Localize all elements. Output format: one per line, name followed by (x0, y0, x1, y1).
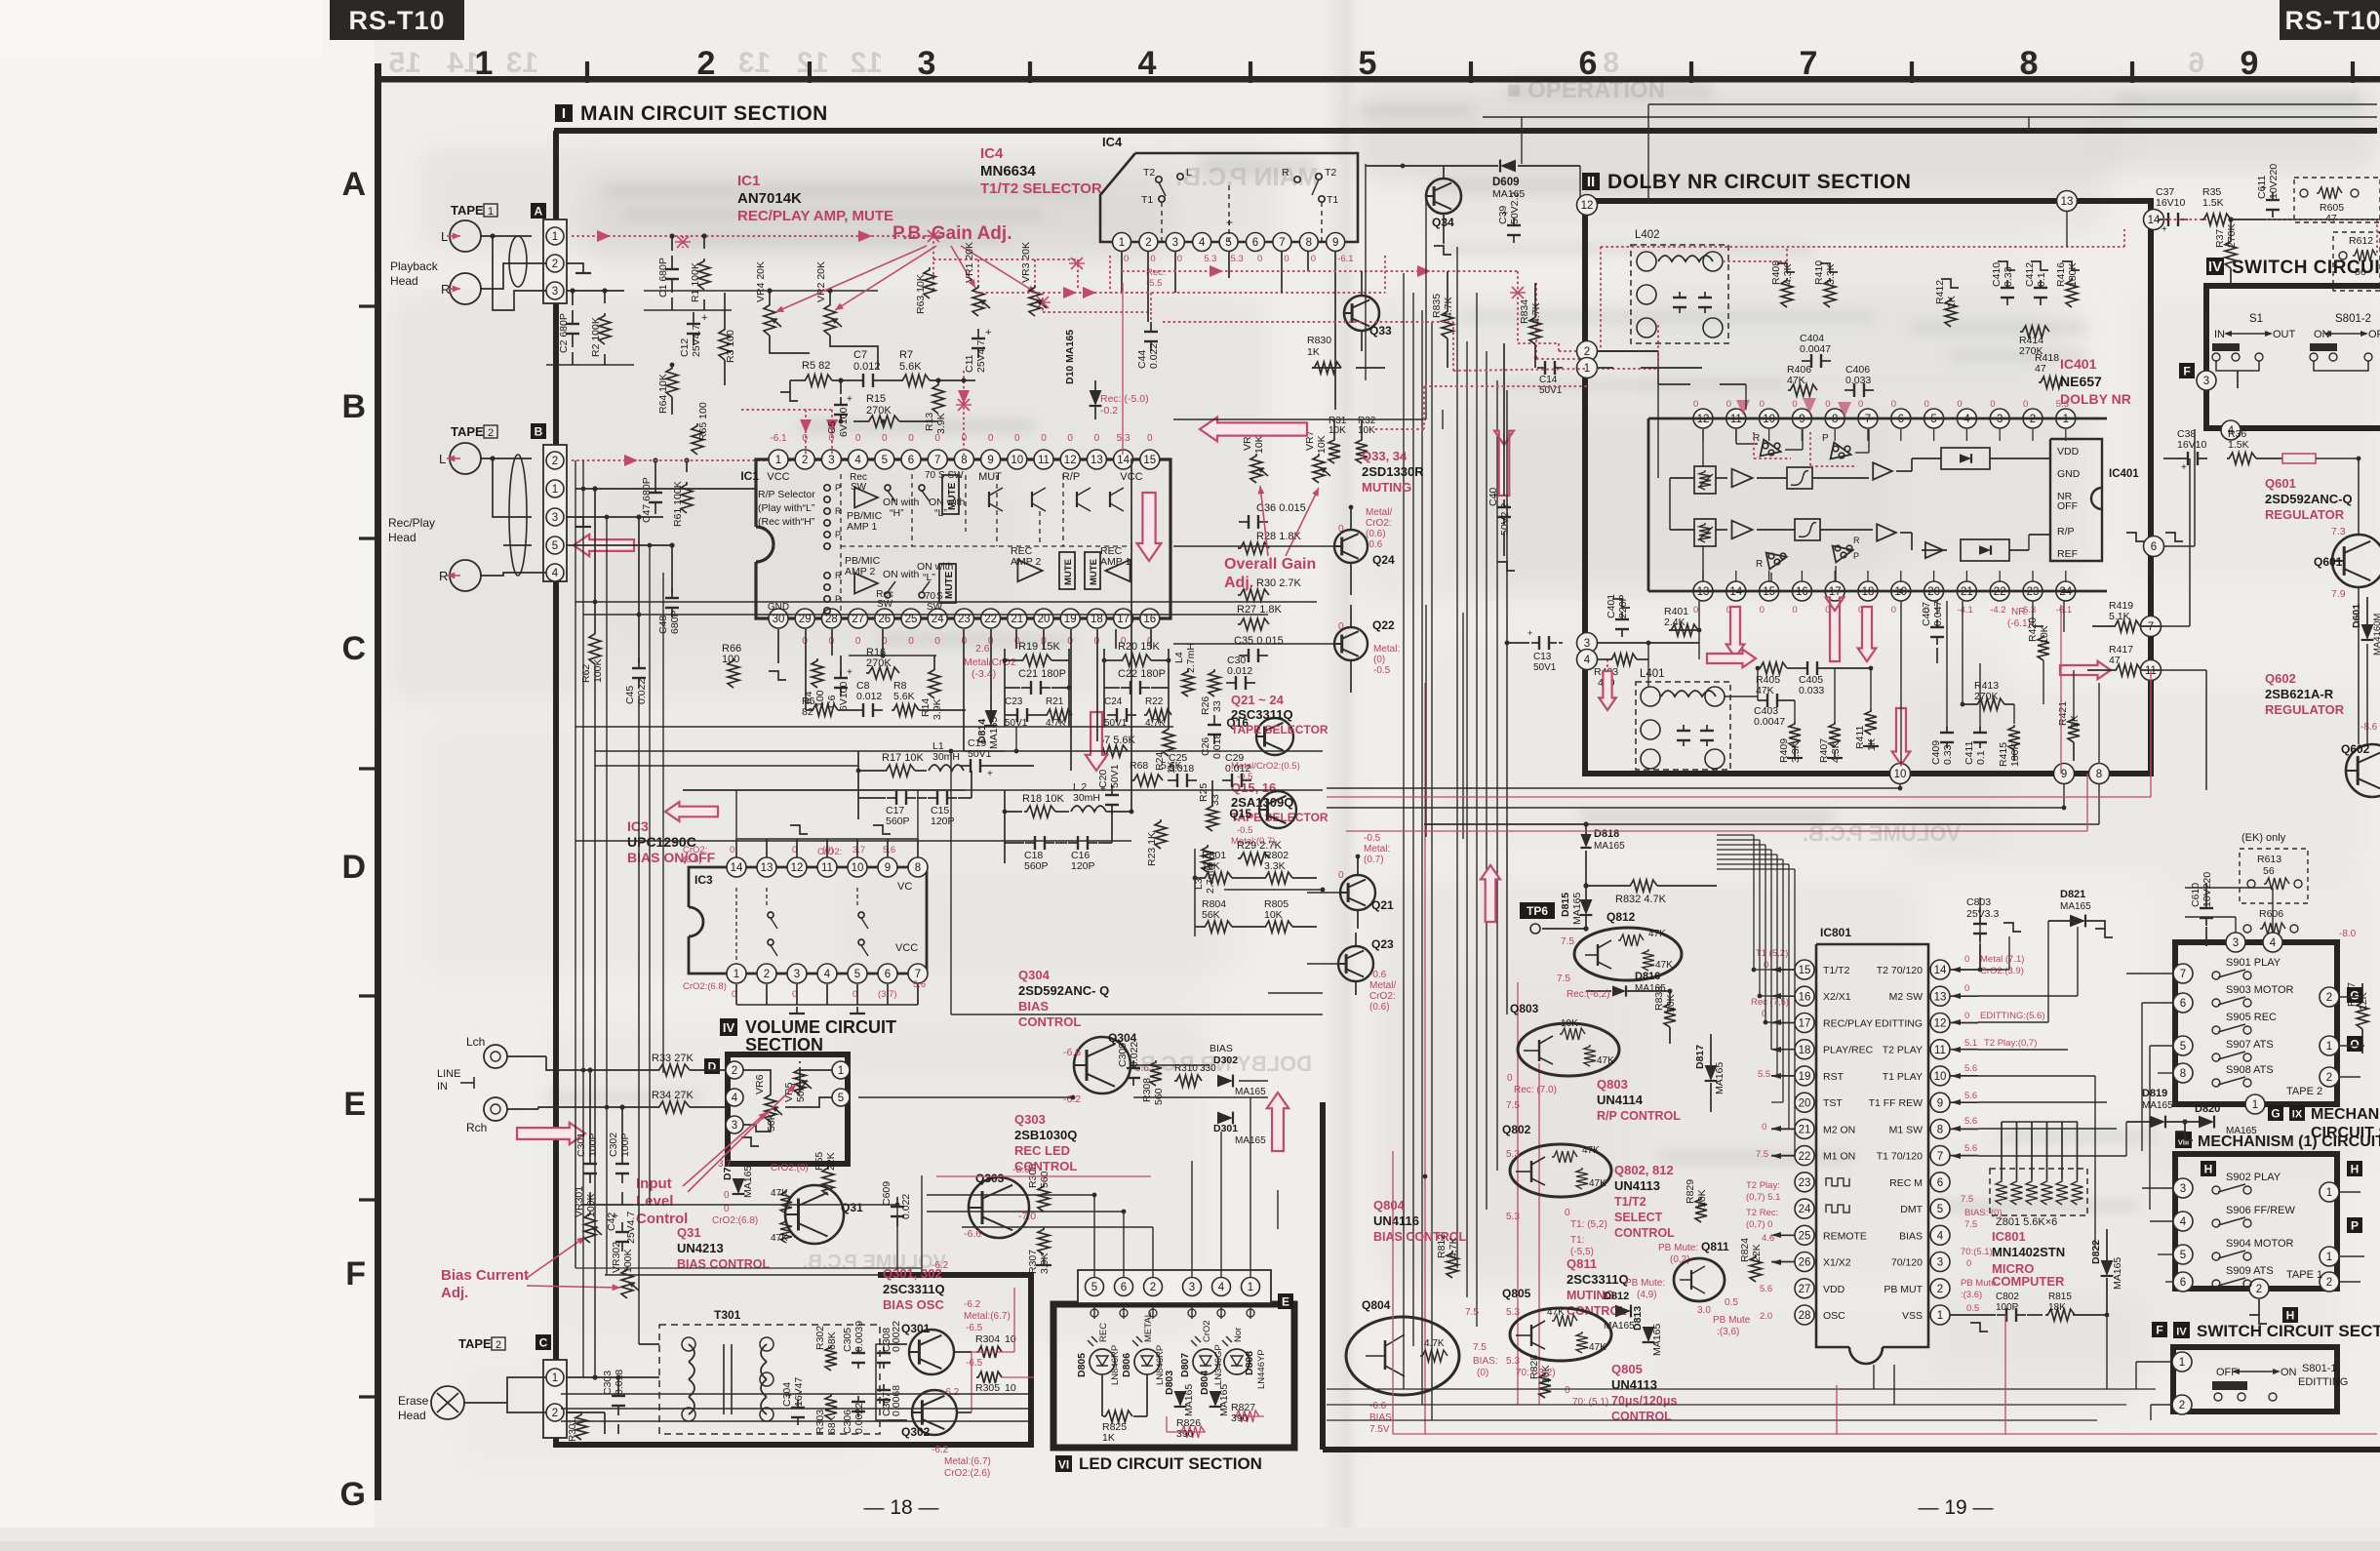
svg-text:0: 0 (1760, 605, 1765, 616)
svg-text:MN6634: MN6634 (980, 163, 1036, 179)
svg-text:M2 ON: M2 ON (1823, 1124, 1855, 1135)
wires C1 R1 (671, 236, 673, 251)
svg-text:0: 0 (1124, 254, 1129, 264)
svg-text:-8.0: -8.0 (2339, 929, 2357, 939)
svg-text:0: 0 (1507, 1073, 1513, 1084)
dolby ch2 weighting amp lower-right (1833, 546, 1853, 563)
svg-text:2: 2 (552, 456, 558, 467)
IC4 switch R T2 T1 right (1294, 177, 1300, 182)
svg-text:R415: R415 (1998, 742, 2009, 767)
svg-text:4: 4 (1138, 45, 1157, 82)
svg-text:(-3.4): (-3.4) (972, 668, 996, 680)
resistor R30 2.7K (1238, 589, 1269, 601)
svg-text:(0.6): (0.6) (1366, 529, 1386, 539)
svg-text:6: 6 (1121, 1282, 1127, 1293)
svg-text:OFF: OFF (2057, 500, 2078, 512)
svg-text:Level: Level (636, 1193, 673, 1210)
svg-text:6: 6 (1937, 1177, 1943, 1189)
svg-text:47K: 47K (1597, 1055, 1614, 1066)
svg-text:LN846RP: LN846RP (1110, 1345, 1121, 1385)
svg-text:680P: 680P (669, 610, 681, 634)
svg-text:MA165: MA165 (1218, 1384, 1230, 1416)
svg-text:25V4.7: 25V4.7 (691, 325, 702, 357)
svg-text:6: 6 (2180, 1277, 2186, 1289)
svg-text:2: 2 (2256, 1284, 2262, 1295)
svg-text:Q602: Q602 (2341, 742, 2370, 756)
svg-text:390: 390 (1231, 1412, 1249, 1424)
svg-text:28: 28 (1799, 1310, 1811, 1322)
overall gain arrows (1260, 486, 1268, 556)
svg-text:0.1: 0.1 (2036, 272, 2047, 287)
svg-text:29: 29 (799, 614, 812, 625)
svg-text:10K: 10K (1264, 909, 1283, 921)
transistor Q21 (1340, 875, 1375, 910)
dolby ch2 weighting amp lower-left (1766, 553, 1787, 570)
svg-text:D821: D821 (2060, 889, 2085, 900)
dolby pin 13 on top border (2057, 191, 2078, 212)
R406 47K C406 0.033 (1788, 384, 1817, 396)
svg-text:2: 2 (2326, 992, 2332, 1004)
resistor R55 22K (822, 1166, 834, 1195)
svg-text:2: 2 (802, 455, 808, 466)
svg-text:2SC3311Q: 2SC3311Q (883, 1282, 945, 1296)
svg-text:9: 9 (2241, 45, 2259, 82)
wires R17 block (858, 770, 884, 772)
svg-text:O: O (2350, 1038, 2359, 1052)
svg-text:13: 13 (761, 862, 773, 874)
svg-text:3.7: 3.7 (853, 845, 865, 855)
dolby ch1 out amp (1873, 462, 1892, 479)
svg-text:MA165: MA165 (1235, 1087, 1266, 1097)
R20 R22 C22 C24 block (1120, 655, 1151, 666)
svg-text:0.018: 0.018 (1211, 734, 1223, 759)
svg-text:13: 13 (738, 47, 771, 79)
wire bundle left to right page upper (1173, 418, 1426, 420)
svg-text:5.6K: 5.6K (899, 361, 922, 373)
node E black square (1278, 1293, 1293, 1309)
svg-text:14: 14 (2148, 215, 2161, 226)
svg-text:T2 Play:(0,7): T2 Play:(0,7) (1984, 1038, 2037, 1049)
svg-text:IV: IV (723, 1020, 735, 1035)
svg-text:47K: 47K (1655, 960, 1673, 971)
svg-text:2: 2 (1145, 237, 1151, 249)
svg-text:IV: IV (2208, 258, 2222, 275)
svg-text:VOLUME CIRCUIT: VOLUME CIRCUIT (745, 1017, 896, 1037)
verticals fold area (1425, 195, 1427, 419)
svg-text:R33 27K: R33 27K (652, 1053, 694, 1064)
svg-text:0: 0 (1177, 254, 1182, 264)
svg-text:RS-T10: RS-T10 (348, 6, 445, 35)
svg-text:2: 2 (488, 427, 494, 439)
left verticals from connector B to bottom (575, 460, 576, 1070)
svg-text:1K: 1K (1307, 346, 1320, 358)
svg-text:D806: D806 (1121, 1353, 1132, 1377)
svg-text:1: 1 (2326, 1252, 2332, 1263)
svg-text:56: 56 (2355, 266, 2366, 278)
svg-text:8: 8 (1937, 1125, 1943, 1136)
svg-text:5: 5 (1937, 1204, 1943, 1215)
svg-text:D822: D822 (2090, 1240, 2102, 1264)
IC3 body (689, 867, 927, 974)
T301 primary winding (689, 1344, 694, 1362)
svg-text:L: L (439, 452, 446, 466)
svg-text:12: 12 (797, 47, 829, 79)
svg-text:MUTE: MUTE (1063, 559, 1074, 585)
dolby chain wires ch2 (1670, 529, 1694, 531)
svg-text:C1 680P: C1 680P (657, 258, 669, 298)
diode D7 MA165 (733, 1178, 745, 1194)
resistor R68 5.6K (1131, 775, 1163, 786)
R401 2.4K (1669, 624, 1698, 636)
svg-text:R15: R15 (866, 393, 886, 405)
svg-text:D601: D601 (2351, 604, 2362, 628)
svg-text:E: E (343, 1086, 366, 1123)
svg-text:70:(5.1): 70:(5.1) (1961, 1247, 1993, 1257)
svg-text:10V220: 10V220 (2268, 164, 2280, 199)
ghost ruler digits showthrough (389, 47, 2204, 79)
svg-text:25: 25 (905, 614, 918, 625)
svg-text:270K: 270K (866, 657, 892, 669)
svg-text:4: 4 (2270, 937, 2277, 949)
svg-text:56K: 56K (1202, 909, 1220, 921)
dolby ch2 shaper (1795, 519, 1820, 540)
svg-text:9: 9 (1332, 237, 1338, 249)
pink dotted IC1 pin 8 vertical (963, 371, 965, 455)
svg-text:0: 0 (882, 433, 888, 444)
R408 4.3K R410 3.3K (1781, 278, 1793, 307)
svg-text:10: 10 (1934, 1071, 1947, 1083)
NE657 bottom pin row 13..24 (1693, 581, 1713, 601)
svg-text:T1/T2: T1/T2 (1823, 965, 1850, 976)
Q803 resistors (1560, 1028, 1585, 1040)
svg-text:F: F (345, 1255, 366, 1292)
svg-text:2: 2 (1584, 346, 1590, 358)
svg-text:5.3: 5.3 (1506, 1356, 1520, 1367)
wires volume to Q areas (858, 1096, 1073, 1098)
C403 0.0047 R409 3.3K R407 4.3K R411 1K (1758, 699, 1767, 701)
svg-text:0: 0 (1858, 399, 1863, 410)
svg-text:MA165: MA165 (2226, 1126, 2257, 1136)
svg-text:REC/PLAY AMP, MUTE: REC/PLAY AMP, MUTE (737, 208, 893, 224)
svg-text:R23 1K: R23 1K (1146, 832, 1158, 866)
svg-text:0.022: 0.022 (636, 679, 648, 704)
svg-text:Q804: Q804 (1362, 1298, 1391, 1312)
R417 47 (2114, 664, 2141, 676)
svg-text:Adj.: Adj. (441, 1285, 468, 1301)
dolby pin 2 on left border (1577, 341, 1598, 362)
svg-text:-0.5: -0.5 (1237, 825, 1252, 836)
dolby pin 7 on right border (2141, 616, 2162, 637)
transistor Q602 (2346, 744, 2380, 797)
svg-text:26: 26 (1799, 1257, 1811, 1269)
svg-text:R/P Selector: R/P Selector (758, 489, 815, 500)
svg-text:R: R (439, 569, 448, 583)
svg-text:C2 680P: C2 680P (558, 313, 570, 353)
svg-text:5.1: 5.1 (1964, 1038, 1977, 1049)
svg-text:Q21 ~ 24: Q21 ~ 24 (1231, 693, 1285, 707)
svg-text:0: 0 (988, 433, 994, 444)
svg-text:0.5: 0.5 (1725, 1297, 1738, 1308)
volume box internal wires (743, 1070, 771, 1093)
wires recplay head to connector B (481, 457, 532, 459)
svg-text:100P: 100P (1996, 1302, 2019, 1313)
svg-text:IC801: IC801 (1820, 926, 1851, 939)
svg-text:Q31: Q31 (677, 1225, 701, 1240)
pink dotted path dolby top (1601, 246, 2124, 248)
svg-text:D820: D820 (2195, 1103, 2220, 1115)
resistor R63 10K (924, 267, 935, 298)
svg-text:0: 0 (1338, 621, 1344, 632)
svg-text:-4.1: -4.1 (1957, 605, 1972, 616)
capacitor C39 50V2.2 (1513, 218, 1515, 225)
svg-text:4: 4 (1199, 237, 1206, 249)
svg-text:MA165: MA165 (1594, 841, 1625, 852)
transformer T301 dashed box (659, 1325, 880, 1434)
svg-text:IC401: IC401 (2060, 356, 2097, 372)
R824 22K (1750, 1254, 1762, 1282)
svg-text:A: A (341, 166, 366, 203)
svg-text:15: 15 (389, 47, 421, 79)
svg-text:Q802, 812: Q802, 812 (1614, 1163, 1674, 1177)
svg-text:10K: 10K (1358, 425, 1375, 436)
wires VR4 VR2 (769, 291, 771, 302)
svg-text:TAPE: TAPE (451, 203, 484, 218)
gnd at pin6 area (2126, 533, 2144, 541)
svg-text:5: 5 (552, 540, 558, 552)
svg-text:+: + (2162, 224, 2167, 235)
svg-text:R26: R26 (1200, 696, 1211, 715)
left margin bar (375, 63, 381, 1500)
svg-text:CrO2:(6.8): CrO2:(6.8) (712, 1215, 758, 1226)
svg-text:Q812: Q812 (1606, 910, 1636, 924)
resistor R34 27K (656, 1101, 690, 1113)
svg-text:70: 70 (925, 470, 936, 481)
svg-text:R22: R22 (1145, 696, 1164, 707)
capacitor C303 0.018 (617, 1386, 619, 1396)
capacitor C47 680P (654, 481, 656, 493)
svg-text:S903 MOTOR: S903 MOTOR (2226, 984, 2294, 996)
tape2 mech pins top (2226, 933, 2245, 952)
svg-text:-6.2: -6.2 (932, 1260, 949, 1271)
C407 0.047 (1936, 619, 1938, 627)
svg-text:MA165: MA165 (2112, 1257, 2123, 1290)
svg-text:12: 12 (1064, 455, 1077, 466)
svg-text:Q805: Q805 (1611, 1362, 1643, 1376)
svg-text:6: 6 (2180, 998, 2186, 1010)
svg-text:R55: R55 (813, 1152, 825, 1171)
svg-text:VR3 20K: VR3 20K (1020, 242, 1032, 283)
svg-text:LED CIRCUIT SECTION: LED CIRCUIT SECTION (1079, 1454, 1262, 1473)
svg-text:16: 16 (1143, 614, 1156, 625)
svg-text:OUT: OUT (2273, 329, 2296, 340)
svg-text:R21: R21 (1046, 696, 1064, 707)
svg-text:-4.2: -4.2 (1990, 605, 2005, 616)
section header VIII MECHANISM 1 CIRCUIT SECTION (2175, 1132, 2192, 1148)
svg-text:AMP 1: AMP 1 (847, 521, 877, 533)
svg-text:D803: D803 (1164, 1371, 1175, 1395)
svg-text:S909 ATS: S909 ATS (2226, 1265, 2274, 1277)
connector C pin 2 (546, 1404, 564, 1421)
R25 33 and L3 (1207, 804, 1218, 831)
svg-text:Overall Gain: Overall Gain (1224, 556, 1316, 573)
svg-text:D609: D609 (1492, 177, 1520, 188)
svg-text:IC1: IC1 (740, 469, 759, 483)
pink line -8.0 bus (936, 1175, 1151, 1177)
svg-text:4: 4 (552, 568, 559, 579)
shield loop on head cable (509, 236, 527, 287)
L401 inductor (1661, 691, 1716, 696)
svg-text:CrO2:: CrO2: (1366, 518, 1392, 529)
playback head R jack (450, 273, 481, 304)
svg-text:0.012: 0.012 (1227, 665, 1252, 677)
wires from IC3 up (735, 790, 737, 839)
svg-text:Metal:: Metal: (1373, 644, 1400, 655)
svg-text:VR4 20K: VR4 20K (755, 261, 767, 302)
svg-text:IC3: IC3 (627, 818, 649, 834)
svg-text:1.5K: 1.5K (2202, 197, 2224, 209)
svg-text:560P: 560P (886, 815, 910, 827)
left long verticals to bias area (594, 665, 596, 1377)
svg-text:3.9K: 3.9K (935, 413, 947, 434)
capacitor C12 25V4.7 (693, 312, 694, 324)
svg-text:0: 0 (1792, 605, 1797, 616)
svg-text:3: 3 (1584, 638, 1590, 650)
svg-text:Q301: Q301 (901, 1322, 931, 1335)
svg-text:C14: C14 (1539, 375, 1558, 385)
dolby ch1 amp (1732, 469, 1753, 488)
pot VR301 100K (584, 1212, 596, 1243)
svg-text:8: 8 (915, 862, 921, 874)
connector E pins (1086, 1278, 1104, 1296)
wires lower row (777, 629, 779, 663)
svg-text:5: 5 (838, 1093, 844, 1104)
IC801 left pin arrows (1771, 967, 1781, 973)
svg-text:C24: C24 (1104, 696, 1123, 707)
svg-text:BIAS: BIAS (1899, 1230, 1923, 1242)
svg-text:A: A (535, 205, 543, 219)
svg-text:25V4.7: 25V4.7 (625, 1212, 637, 1244)
svg-text:11: 11 (1934, 1045, 1946, 1056)
svg-text:10: 10 (1005, 1382, 1016, 1394)
svg-text:UN4213: UN4213 (677, 1241, 724, 1255)
svg-text:R/P: R/P (2057, 526, 2075, 537)
svg-text:47K: 47K (1547, 1307, 1565, 1318)
svg-text:1: 1 (552, 1372, 558, 1384)
svg-text:R/P: R/P (1062, 471, 1080, 483)
svg-text:5.3: 5.3 (1506, 1149, 1520, 1160)
diode D813 MA165 (1643, 1327, 1655, 1342)
svg-text:4: 4 (1218, 1282, 1225, 1293)
dolby pin 1 on left border (1577, 358, 1598, 378)
connector A pin 1 (546, 227, 564, 245)
svg-text:0.012: 0.012 (1225, 763, 1250, 775)
potentiometer VR3 20K (1029, 285, 1041, 316)
capacitor C14 50V1 (1537, 367, 1545, 369)
svg-text:MUTE: MUTE (944, 571, 955, 599)
svg-text:R409: R409 (1778, 738, 1790, 763)
svg-text:22: 22 (984, 614, 997, 625)
svg-text:MUTE: MUTE (947, 482, 958, 510)
dolby ch1 shaper (1787, 467, 1812, 489)
wires into tape1 mech (2142, 1187, 2173, 1189)
svg-text:3: 3 (2203, 376, 2209, 387)
diode D812 MA165 (1615, 1305, 1631, 1318)
wires playback head to connector A (481, 235, 532, 237)
svg-text:-6.5: -6.5 (966, 1323, 983, 1333)
svg-text:R25: R25 (1198, 783, 1210, 802)
connector B pin 3 (546, 508, 564, 526)
svg-text:70: (5,1): 70: (5,1) (1572, 1397, 1608, 1408)
R825 1K (1103, 1411, 1132, 1422)
LED D806 (1134, 1349, 1160, 1374)
svg-text:T2 70/120: T2 70/120 (1877, 965, 1923, 976)
transistor Q811 ellipse (1674, 1258, 1725, 1301)
volume box pin 3 (726, 1116, 743, 1133)
resistor R801 10K (1203, 872, 1232, 884)
dolby ch1 chain attenuator (1694, 466, 1716, 494)
svg-text:-6.1: -6.1 (1337, 254, 1353, 264)
svg-text:T1: (5,2): T1: (5,2) (1570, 1219, 1607, 1230)
transistor Q804 ellipse (1346, 1317, 1459, 1395)
svg-text:PB Mute: PB Mute (1961, 1278, 1996, 1289)
node F black square (2179, 363, 2195, 378)
diode D816 MA165 (1612, 985, 1626, 996)
connector E strip (1078, 1270, 1271, 1303)
svg-text:BIAS:: BIAS: (1473, 1356, 1498, 1367)
svg-text:0: 0 (1964, 1011, 1969, 1021)
svg-text:0.012: 0.012 (853, 361, 881, 373)
wire bundle into IC801 left (1754, 969, 1771, 971)
dolby ch2 out amp (1877, 524, 1896, 540)
svg-text:PB Mute: PB Mute (1713, 1315, 1751, 1326)
svg-text:TP6: TP6 (1527, 904, 1548, 918)
svg-text:Q601: Q601 (2265, 476, 2296, 491)
svg-text:2: 2 (764, 969, 770, 980)
svg-text:1: 1 (838, 1065, 844, 1077)
playback head L jack (450, 220, 481, 252)
svg-text:Q804: Q804 (1373, 1198, 1406, 1213)
svg-text:7.3: 7.3 (2331, 526, 2346, 537)
diodes D803 D804 (1174, 1391, 1187, 1407)
svg-text:D302: D302 (1213, 1054, 1238, 1066)
svg-text:0: 0 (2023, 399, 2028, 410)
svg-text:13: 13 (2061, 196, 2074, 208)
svg-text:+: + (1492, 491, 1498, 501)
svg-text:S906 FF/REW: S906 FF/REW (2226, 1205, 2296, 1216)
fold area vertical wire bundle (1403, 273, 1405, 1389)
svg-text:D301: D301 (1213, 1123, 1238, 1134)
svg-text:3: 3 (732, 1120, 737, 1132)
svg-text:IC3: IC3 (694, 873, 713, 887)
svg-text:0: 0 (1792, 399, 1797, 410)
pink dotted main path across fold (1122, 270, 1518, 272)
svg-text:16V47: 16V47 (793, 1376, 805, 1407)
svg-text:VR6: VR6 (754, 1074, 766, 1094)
svg-text:0: 0 (1338, 524, 1344, 535)
dolby ch1 weighting amp right (1831, 443, 1851, 459)
svg-text:4.7K: 4.7K (1448, 1237, 1459, 1258)
potentiometer VR1 20K (972, 285, 984, 316)
pink X hatch marks on dotted paths (928, 230, 939, 242)
svg-text:REF: REF (2057, 548, 2078, 560)
Q804 resistor 4.7K (1420, 1350, 1448, 1362)
shield loop on recplay cable (509, 455, 527, 576)
svg-text:33: 33 (1210, 794, 1221, 806)
svg-text:4: 4 (854, 455, 861, 466)
C38 16V10 R36 1.5K (2178, 457, 2188, 459)
erase bus wires (575, 1267, 922, 1269)
label Lch jack (484, 1045, 507, 1068)
